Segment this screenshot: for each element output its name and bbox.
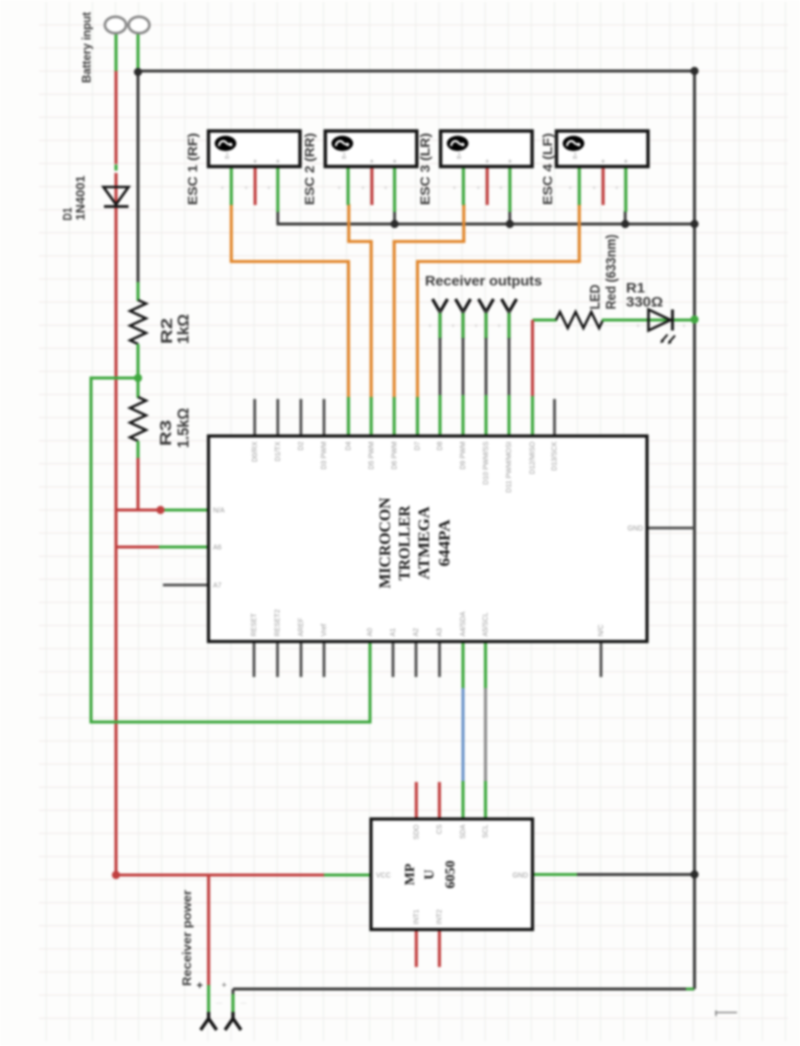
svg-text:A5/SCL: A5/SCL <box>483 612 490 636</box>
svg-text:A6: A6 <box>213 545 222 552</box>
svg-text:CS: CS <box>437 824 444 834</box>
svg-text:ESC 4 (LF): ESC 4 (LF) <box>540 133 555 205</box>
svg-text:+: + <box>499 185 503 192</box>
svg-text:+: + <box>222 980 227 990</box>
svg-text:A0: A0 <box>367 628 374 637</box>
svg-text:R3: R3 <box>158 420 175 446</box>
svg-text:A1: A1 <box>390 628 397 637</box>
svg-text:GND: GND <box>627 526 643 533</box>
svg-text:INT2: INT2 <box>437 909 444 924</box>
svg-text:+: + <box>601 159 605 166</box>
svg-text:+: + <box>384 185 388 192</box>
svg-text:Vref: Vref <box>321 624 328 637</box>
svg-text:B+: B+ <box>573 152 579 159</box>
svg-text:TROLLER: TROLLER <box>397 505 414 580</box>
svg-text:+: + <box>393 159 397 166</box>
svg-text:D6 PWM: D6 PWM <box>391 441 398 469</box>
svg-text:A7: A7 <box>213 583 222 590</box>
svg-text:+: + <box>253 159 257 166</box>
svg-text:644PA: 644PA <box>437 519 454 566</box>
svg-text:+: + <box>452 185 456 192</box>
svg-text:D11 PWM/MOSI: D11 PWM/MOSI <box>506 441 513 492</box>
svg-text:ATMEGA: ATMEGA <box>416 506 433 579</box>
svg-text:1N4001: 1N4001 <box>74 175 88 220</box>
svg-text:B+: B+ <box>225 152 231 159</box>
svg-text:RESET: RESET <box>251 612 258 636</box>
svg-text:SCL: SCL <box>483 824 490 838</box>
svg-text:D13/SCK: D13/SCK <box>552 441 559 471</box>
svg-text:+: + <box>361 185 365 192</box>
svg-text:+: + <box>624 159 628 166</box>
svg-text:D10 PWM/SS: D10 PWM/SS <box>483 441 490 485</box>
svg-text:+: + <box>636 323 640 330</box>
svg-text:+: + <box>220 185 224 192</box>
svg-text:330Ω: 330Ω <box>626 294 663 310</box>
svg-text:+: + <box>476 185 480 192</box>
svg-text:N/A: N/A <box>213 508 225 515</box>
svg-text:D0/RX: D0/RX <box>252 441 259 462</box>
svg-text:D2: D2 <box>298 441 305 450</box>
svg-text:1.5kΩ: 1.5kΩ <box>176 408 193 448</box>
svg-text:D1: D1 <box>61 207 75 220</box>
svg-text:+: + <box>337 185 341 192</box>
svg-text:+: + <box>592 185 596 192</box>
svg-text:D7: D7 <box>415 441 422 450</box>
svg-text:D1/TX: D1/TX <box>275 441 282 461</box>
svg-text:1kΩ: 1kΩ <box>176 314 193 344</box>
svg-text:—: — <box>216 1001 222 1007</box>
svg-text:+: + <box>428 323 432 330</box>
svg-text:AREF: AREF <box>298 618 305 637</box>
svg-text:D9 PWM: D9 PWM <box>460 441 467 469</box>
svg-text:+: + <box>267 185 271 192</box>
svg-text:VCC: VCC <box>376 873 391 880</box>
svg-text:ESC 2 (RR): ESC 2 (RR) <box>302 133 317 205</box>
svg-text:MICROCON: MICROCON <box>377 497 394 588</box>
svg-text:+: + <box>474 323 478 330</box>
svg-text:+: + <box>197 980 203 992</box>
svg-text:MP: MP <box>403 863 418 885</box>
svg-text:B+: B+ <box>457 152 463 159</box>
svg-text:RESET2: RESET2 <box>275 609 282 636</box>
svg-text:+: + <box>682 323 686 330</box>
svg-text:A4/SDA: A4/SDA <box>460 611 467 636</box>
svg-text:B+: B+ <box>342 152 348 159</box>
svg-text:Red (633nm): Red (633nm) <box>603 235 619 310</box>
svg-text:+: + <box>370 159 374 166</box>
svg-text:Receiver power: Receiver power <box>180 890 194 986</box>
svg-text:Receiver outputs: Receiver outputs <box>425 274 542 289</box>
svg-text:SDA: SDA <box>460 824 467 839</box>
svg-text:+: + <box>451 323 455 330</box>
svg-text:D8: D8 <box>437 441 444 450</box>
svg-text:LED: LED <box>587 285 603 310</box>
svg-text:ESC 3 (LR): ESC 3 (LR) <box>418 133 433 205</box>
svg-text:+: + <box>485 159 489 166</box>
svg-text:A3: A3 <box>437 628 444 637</box>
svg-text:ESC 1 (RF): ESC 1 (RF) <box>185 133 200 205</box>
svg-text:N/C: N/C <box>598 624 605 636</box>
svg-text:D12/MISO: D12/MISO <box>530 441 537 474</box>
svg-text:D4: D4 <box>346 441 353 450</box>
svg-text:—: — <box>241 1001 247 1007</box>
svg-text:U: U <box>423 869 438 879</box>
svg-text:Battery input: Battery input <box>80 12 94 83</box>
svg-text:D5 PWM: D5 PWM <box>368 441 375 469</box>
svg-text:+: + <box>568 185 572 192</box>
svg-text:A2: A2 <box>413 628 420 637</box>
svg-text:D3 PWM: D3 PWM <box>321 441 328 469</box>
svg-text:INT1: INT1 <box>414 909 421 924</box>
svg-text:GND: GND <box>512 873 528 880</box>
svg-text:R2: R2 <box>159 318 176 344</box>
svg-text:6050: 6050 <box>444 861 459 889</box>
svg-text:+: + <box>615 185 619 192</box>
svg-text:+: + <box>497 323 501 330</box>
svg-text:+: + <box>508 159 512 166</box>
svg-text:+: + <box>244 185 248 192</box>
svg-text:+: + <box>276 159 280 166</box>
svg-text:SDO: SDO <box>414 824 421 840</box>
